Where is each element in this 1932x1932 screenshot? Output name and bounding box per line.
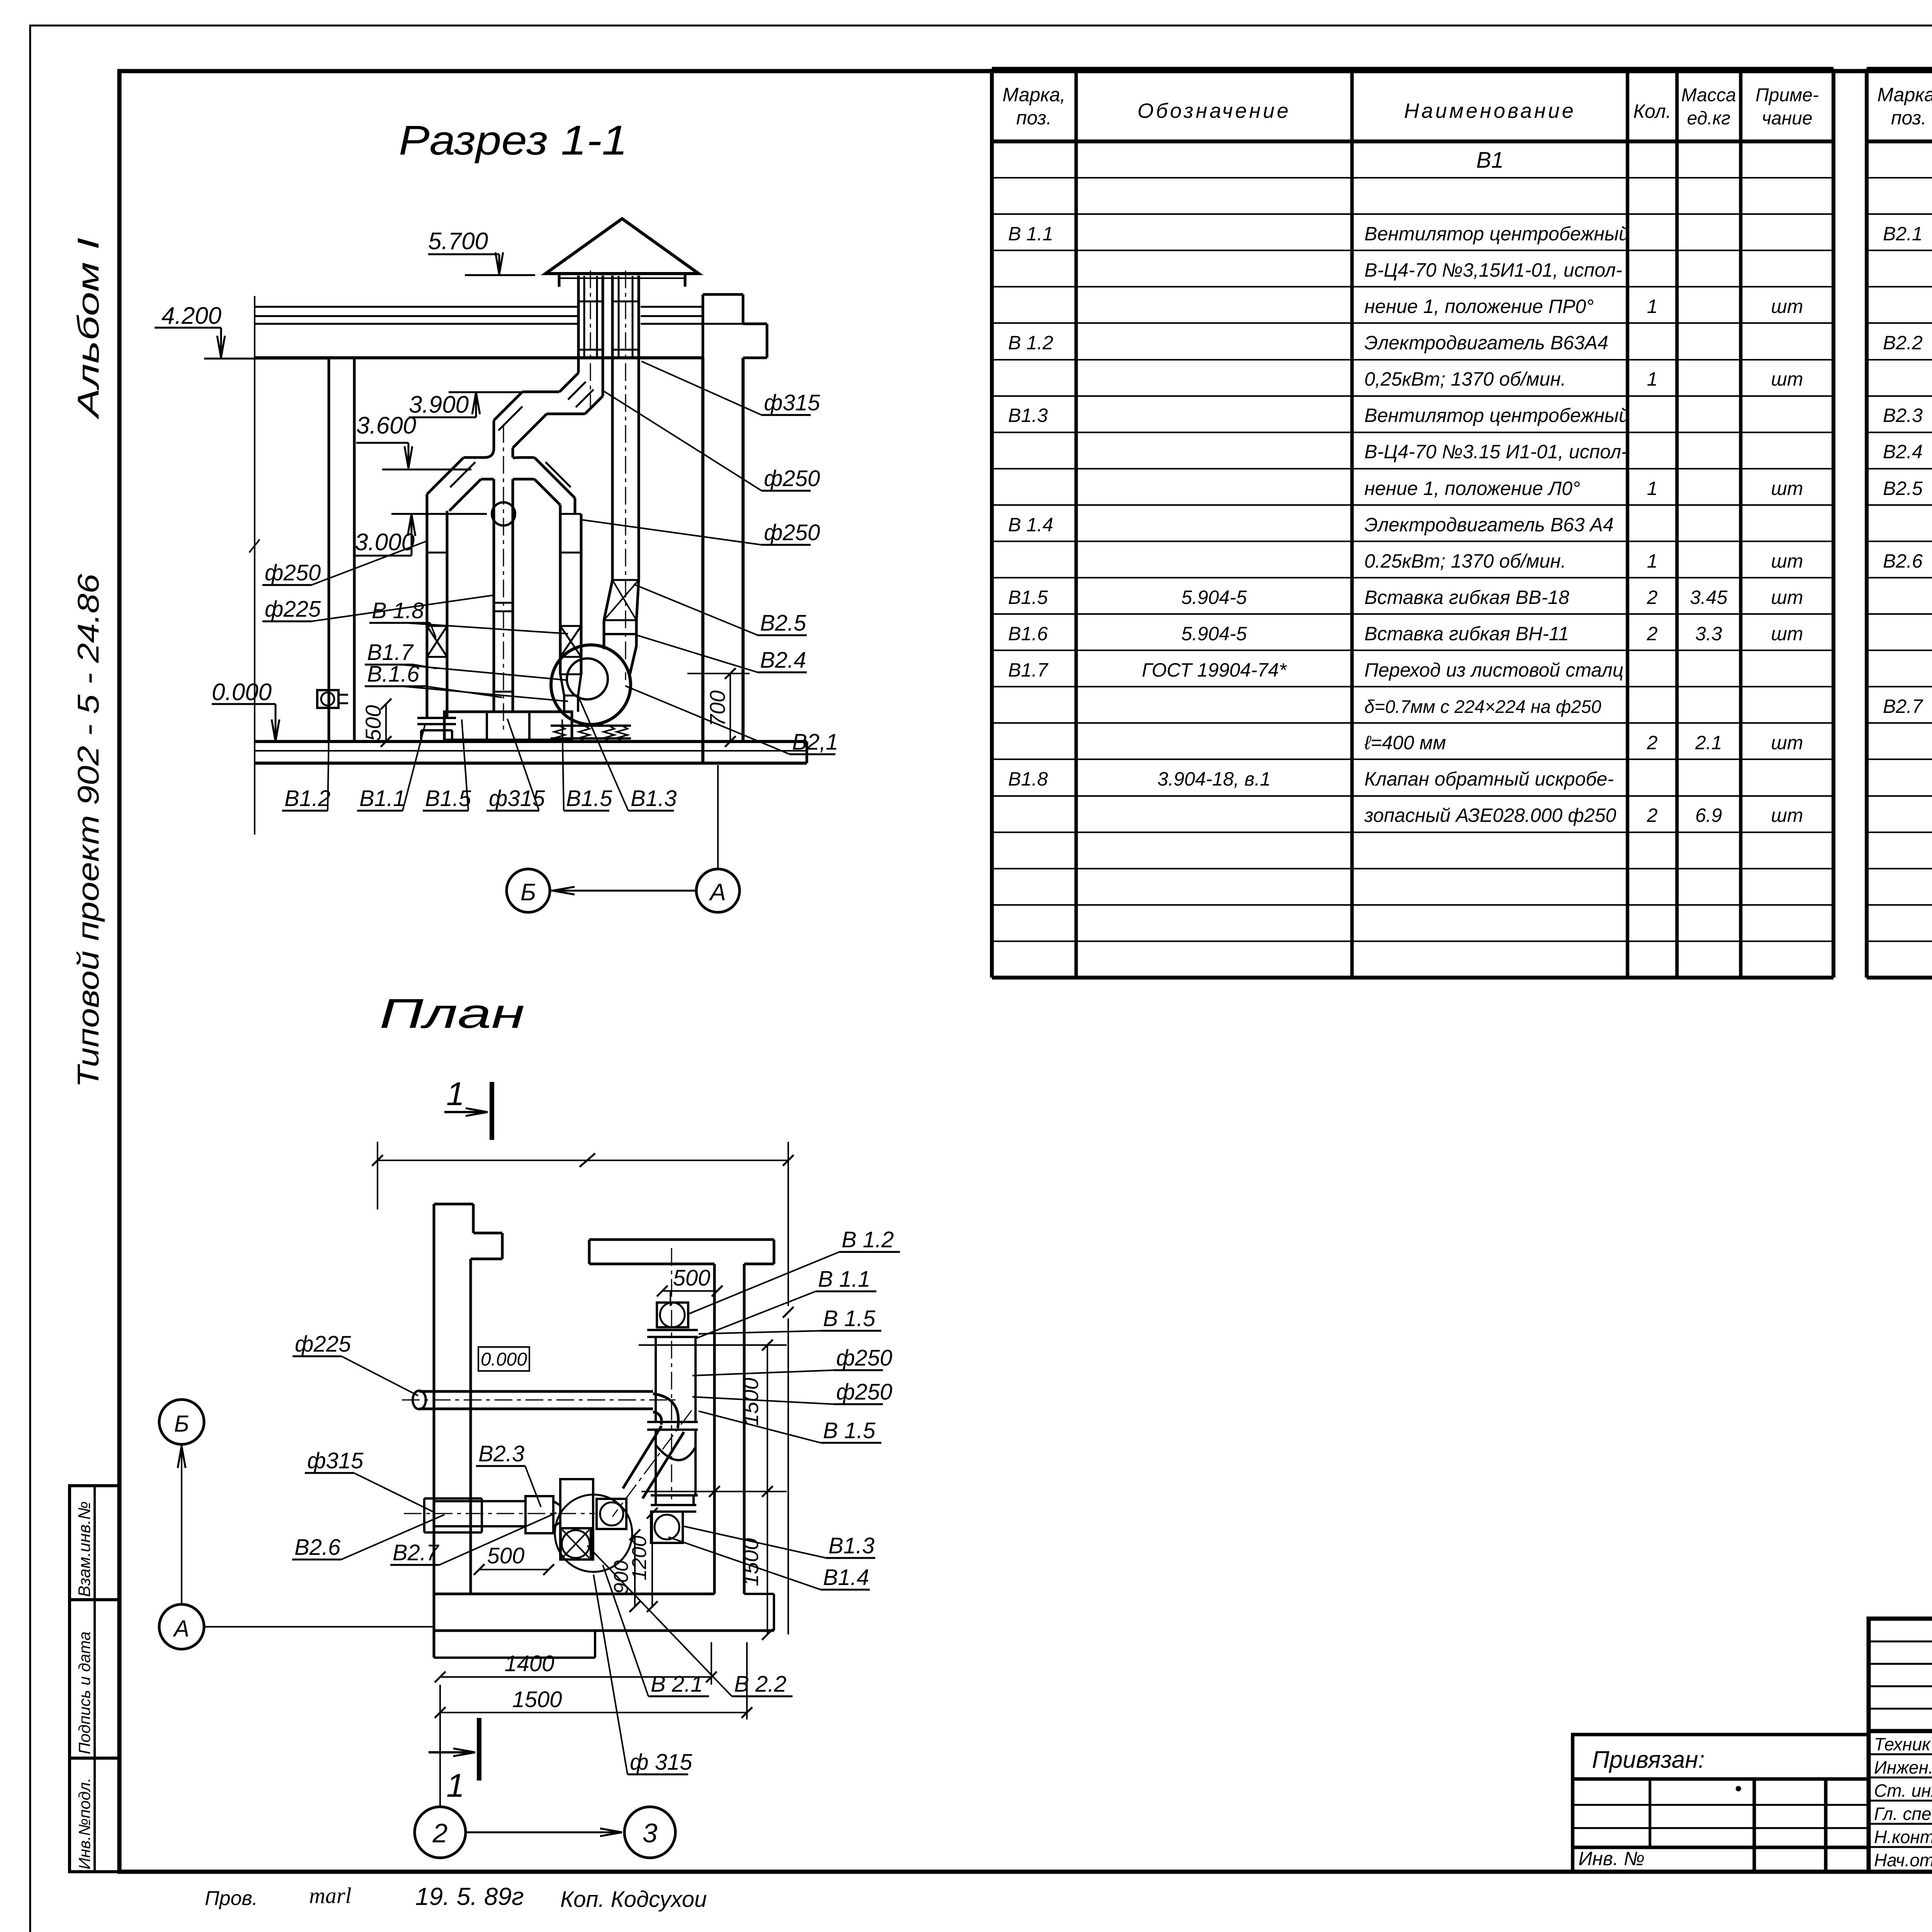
svg-text:Альбом I: Альбом I xyxy=(71,238,105,420)
svg-text:поз.: поз. xyxy=(1016,107,1052,129)
svg-text:0,25кВт; 1370 об/мин.: 0,25кВт; 1370 об/мин. xyxy=(1364,368,1566,390)
svg-text:В1.7: В1.7 xyxy=(1008,659,1049,681)
vertical neck piece xyxy=(493,420,495,448)
svg-text:зопасный АЗЕ028.000 ф250: зопасный АЗЕ028.000 ф250 xyxy=(1364,804,1616,826)
svg-text:5.700: 5.700 xyxy=(428,228,488,255)
svg-text:чание: чание xyxy=(1762,108,1812,129)
svg-text:19. 5. 89г: 19. 5. 89г xyxy=(415,1883,524,1910)
svg-text:В.1.6: В.1.6 xyxy=(367,662,420,687)
svg-text:1500: 1500 xyxy=(512,1687,562,1712)
svg-text:В 1.5: В 1.5 xyxy=(823,1306,876,1331)
svg-text:В1.8: В1.8 xyxy=(1008,768,1048,790)
V1.7 transition right duct xyxy=(560,674,564,696)
svg-text:Н.контр.: Н.контр. xyxy=(1874,1827,1932,1847)
stand under ducts xyxy=(444,712,572,740)
svg-text:1500: 1500 xyxy=(738,1378,763,1426)
svg-text:Б: Б xyxy=(174,1411,189,1437)
plan V2.1 fan outlet box xyxy=(597,1499,626,1529)
roof slab xyxy=(255,306,578,308)
riser centerlines xyxy=(590,270,591,410)
personnel rows xyxy=(1869,1753,1932,1755)
svg-text:5.904-5: 5.904-5 xyxy=(1181,623,1247,645)
svg-text:6.9: 6.9 xyxy=(1695,804,1722,826)
transition V2.5 cone xyxy=(604,580,612,620)
V1 riser duct f250 xyxy=(577,276,580,373)
floor slab xyxy=(255,740,807,743)
svg-text:Взам.инв.№: Взам.инв.№ xyxy=(75,1501,94,1597)
svg-text:В2.2: В2.2 xyxy=(1883,332,1923,354)
svg-text:Инв. №: Инв. № xyxy=(1578,1848,1645,1869)
svg-text:В2.7: В2.7 xyxy=(1883,696,1923,717)
svg-text:В2.6: В2.6 xyxy=(294,1535,341,1560)
svg-text:нение 1, положение ПР0°: нение 1, положение ПР0° xyxy=(1364,296,1594,317)
plan dims 1500 right xyxy=(767,1345,768,1634)
svg-text:В1: В1 xyxy=(1476,148,1504,173)
svg-text:1200: 1200 xyxy=(628,1536,651,1580)
plan section mark top xyxy=(490,1082,494,1140)
svg-text:ГОСТ 19904-74*: ГОСТ 19904-74* xyxy=(1142,659,1287,681)
plan V1 duct run xyxy=(655,1337,657,1422)
sidebar label boxes xyxy=(70,1486,119,1600)
svg-text:ф250: ф250 xyxy=(764,466,820,491)
privyazan block xyxy=(1573,1735,1869,1872)
plan V2.3 flexible insert xyxy=(526,1496,553,1533)
fan outlet to cone xyxy=(603,620,605,649)
plan axis circles 2 and 3 xyxy=(415,1807,466,1858)
elbow down to vertical piece xyxy=(494,392,522,420)
plan diagonal duct xyxy=(643,1432,684,1498)
svg-text:В1.4: В1.4 xyxy=(823,1565,869,1590)
svg-text:В 2.2: В 2.2 xyxy=(734,1672,786,1697)
svg-text:В 1.5: В 1.5 xyxy=(823,1418,876,1443)
svg-text:3: 3 xyxy=(643,1818,658,1848)
plan V2.7 cone xyxy=(553,1501,560,1505)
plan V2.1 fan circle xyxy=(555,1495,632,1572)
right duct of fork xyxy=(574,498,577,514)
upper empty grid rows xyxy=(1869,1641,1932,1643)
fork shoulder xyxy=(464,448,494,457)
svg-text:2: 2 xyxy=(1646,623,1658,645)
plan V1 fan/motor cluster top xyxy=(657,1303,688,1327)
svg-text:4.200: 4.200 xyxy=(162,303,221,329)
specification table B2 grid xyxy=(1865,69,1869,978)
svg-text:В1.5: В1.5 xyxy=(566,786,612,811)
svg-text:Ст. инж.: Ст. инж. xyxy=(1874,1781,1932,1801)
plan V1 elbow piece xyxy=(655,1430,657,1445)
svg-text:В 1.2: В 1.2 xyxy=(842,1227,894,1252)
svg-text:ф250: ф250 xyxy=(836,1345,892,1371)
svg-text:В1.5: В1.5 xyxy=(1008,587,1048,608)
svg-text:1: 1 xyxy=(1647,296,1658,317)
check valve V1.8 left (X) xyxy=(427,626,447,657)
svg-text:ед.кг: ед.кг xyxy=(1687,108,1730,129)
svg-text:Вентилятор центробежный: Вентилятор центробежный xyxy=(1364,223,1629,245)
svg-text:В 2.1: В 2.1 xyxy=(651,1672,703,1697)
plan dims 900 1200 xyxy=(634,1535,636,1607)
svg-text:Электродвигатель В63 А4: Электродвигатель В63 А4 xyxy=(1364,514,1614,536)
svg-text:В1.3: В1.3 xyxy=(1008,405,1048,426)
svg-text:Пров.: Пров. xyxy=(205,1887,258,1910)
svg-text:1400: 1400 xyxy=(504,1651,554,1676)
svg-text:А: А xyxy=(173,1616,189,1641)
svg-text:ф250: ф250 xyxy=(764,520,820,545)
svg-text:В1.3: В1.3 xyxy=(631,786,677,811)
svg-text:поз.: поз. xyxy=(1891,107,1927,129)
dim 500 left xyxy=(385,704,387,742)
svg-text:шт: шт xyxy=(1771,732,1803,753)
svg-text:В 1.1: В 1.1 xyxy=(1008,223,1053,245)
check valve V1.8 right (X) xyxy=(560,626,581,657)
svg-text:В2.7: В2.7 xyxy=(393,1540,440,1565)
svg-text:шт: шт xyxy=(1771,368,1803,390)
svg-text:5.904-5: 5.904-5 xyxy=(1181,587,1247,608)
svg-text:нение 1, положение Л0°: нение 1, положение Л0° xyxy=(1364,478,1580,499)
vibration springs under fan xyxy=(551,724,631,727)
svg-text:0.25кВт; 1370 об/мин.: 0.25кВт; 1370 об/мин. xyxy=(1364,550,1566,572)
dim 700 right xyxy=(730,673,731,742)
duct joint ticks right xyxy=(560,552,581,554)
center duct ticks xyxy=(494,602,513,604)
svg-text:Вентилятор центробежный: Вентилятор центробежный xyxy=(1364,405,1629,426)
svg-text:В 1.8: В 1.8 xyxy=(372,598,424,623)
plan 0.000 box xyxy=(478,1347,529,1371)
svg-text:500: 500 xyxy=(487,1543,525,1568)
svg-text:1: 1 xyxy=(1647,478,1658,499)
svg-text:В2.3: В2.3 xyxy=(1883,405,1923,426)
svg-text:3.900: 3.900 xyxy=(409,391,469,418)
svg-text:1: 1 xyxy=(446,1767,464,1804)
svg-text:0.000: 0.000 xyxy=(481,1349,527,1370)
svg-text:В 1.1: В 1.1 xyxy=(818,1267,870,1292)
plan top-right wall band with stem xyxy=(589,1238,774,1241)
svg-text:В1.5: В1.5 xyxy=(425,786,471,811)
svg-text:В-Ц4-70 №3,15И1-01, испол-: В-Ц4-70 №3,15И1-01, испол- xyxy=(1364,259,1622,281)
svg-text:Инв.№подл.: Инв.№подл. xyxy=(75,1778,94,1869)
svg-text:В 1.2: В 1.2 xyxy=(1008,332,1053,354)
svg-text:3.000: 3.000 xyxy=(355,529,415,556)
svg-text:ℓ=400 мм: ℓ=400 мм xyxy=(1364,732,1446,753)
svg-text:0.000: 0.000 xyxy=(212,679,272,706)
axis circles section: B and A xyxy=(507,869,550,912)
svg-text:Разрез 1-1: Разрез 1-1 xyxy=(399,117,628,163)
svg-text:Коп. Кодсухои: Коп. Кодсухои xyxy=(560,1887,707,1912)
svg-text:500: 500 xyxy=(673,1265,711,1291)
right parapet xyxy=(703,293,743,296)
svg-text:ф315: ф315 xyxy=(307,1448,364,1473)
motor V1.2 bracket on wall xyxy=(317,690,338,708)
svg-text:Масса: Масса xyxy=(1681,85,1736,105)
svg-text:3.3: 3.3 xyxy=(1695,623,1722,645)
svg-text:Вставка гибкая ВН-11: Вставка гибкая ВН-11 xyxy=(1364,623,1569,645)
riser joint ticks xyxy=(578,301,603,303)
plan section mark bottom xyxy=(477,1718,481,1781)
svg-text:В1.2: В1.2 xyxy=(284,786,330,811)
plan left wall xyxy=(433,1204,435,1658)
svg-text:3.45: 3.45 xyxy=(1690,587,1728,608)
svg-text:В 1.4: В 1.4 xyxy=(1008,514,1053,536)
svg-text:ф225: ф225 xyxy=(295,1332,351,1357)
svg-text:Нач.отд.: Нач.отд. xyxy=(1874,1850,1932,1870)
plan axis circles B and A left xyxy=(159,1400,204,1444)
svg-text:ф250: ф250 xyxy=(836,1379,892,1405)
svg-text:В2.5: В2.5 xyxy=(1883,478,1923,499)
left wall column xyxy=(328,358,330,742)
svg-text:В2,1: В2,1 xyxy=(792,730,838,755)
svg-text:В1.6: В1.6 xyxy=(1008,623,1048,645)
left duct foot plates xyxy=(417,717,456,719)
svg-text:ф 315: ф 315 xyxy=(630,1750,692,1775)
svg-text:шт: шт xyxy=(1771,804,1803,826)
svg-text:План: План xyxy=(379,990,525,1037)
svg-text:ф315: ф315 xyxy=(489,786,545,811)
svg-text:ф250: ф250 xyxy=(265,560,321,585)
svg-text:Приме-: Приме- xyxy=(1755,85,1819,105)
svg-text:Гл. спец.: Гл. спец. xyxy=(1874,1804,1932,1824)
svg-text:Вставка гибкая ВВ-18: Вставка гибкая ВВ-18 xyxy=(1364,587,1569,608)
svg-text:А: А xyxy=(708,879,726,906)
svg-text:Марка,: Марка, xyxy=(1877,84,1932,105)
plan top dimension line xyxy=(378,1160,788,1161)
left extension line xyxy=(254,296,255,835)
svg-text:1: 1 xyxy=(1647,550,1658,572)
plan bottom wall xyxy=(434,1593,714,1595)
center duct f225 xyxy=(493,479,495,712)
svg-text:В-Ц4-70 №3.15 И1-01, испол-: В-Ц4-70 №3.15 И1-01, испол- xyxy=(1364,441,1628,463)
duct joint ticks left xyxy=(427,552,447,554)
plan V2 duct from wall xyxy=(434,1500,526,1502)
title block frame xyxy=(1869,1619,1932,1872)
svg-text:шт: шт xyxy=(1771,478,1803,499)
svg-text:2: 2 xyxy=(1646,587,1658,608)
plan top-left pillar xyxy=(434,1203,473,1206)
svg-text:В1.1: В1.1 xyxy=(359,786,405,811)
svg-text:2: 2 xyxy=(1646,732,1658,753)
svg-text:3.904-18, в.1: 3.904-18, в.1 xyxy=(1158,768,1271,790)
umbrella cap xyxy=(546,219,699,274)
svg-text:Электродвигатель В63А4: Электродвигатель В63А4 xyxy=(1364,332,1608,354)
svg-text:Кол.: Кол. xyxy=(1633,100,1671,122)
svg-text:1: 1 xyxy=(1647,368,1658,390)
V1 horizontal duct at 3.900 with elbows xyxy=(522,391,560,393)
svg-text:шт: шт xyxy=(1771,623,1803,645)
svg-text:Марка,: Марка, xyxy=(1002,84,1065,105)
svg-text:2: 2 xyxy=(1646,804,1658,826)
left duct of fork xyxy=(426,494,429,718)
svg-text:В2.6: В2.6 xyxy=(1883,550,1923,572)
fan V2.1 scroll xyxy=(551,645,631,724)
svg-text:δ=0.7мм с 224×224 на ф250: δ=0.7мм с 224×224 на ф250 xyxy=(1364,696,1601,717)
svg-text:Подпись и дата: Подпись и дата xyxy=(75,1631,94,1754)
svg-text:шт: шт xyxy=(1771,550,1803,572)
V2 riser duct f315 xyxy=(611,276,614,580)
svg-text:Типовой проект 902 - 5 - 24.: Типовой проект 902 - 5 - 24.86 xyxy=(71,573,105,1088)
svg-text:Клапан обратный искробе-: Клапан обратный искробе- xyxy=(1364,768,1614,790)
plan elbow at pipe end xyxy=(653,1394,679,1428)
svg-text:Обозначение: Обозначение xyxy=(1138,99,1291,122)
plan V1.3 unit bottom xyxy=(655,1495,657,1505)
svg-text:2: 2 xyxy=(432,1818,448,1848)
svg-text:3.600: 3.600 xyxy=(356,412,416,439)
plan V2.1 fan scroll housing xyxy=(560,1479,593,1560)
svg-text:Инжен.: Инжен. xyxy=(1874,1757,1932,1777)
plan pipe f225 xyxy=(413,1391,426,1409)
svg-text:Привязан:: Привязан: xyxy=(1592,1747,1705,1773)
svg-text:В2.4: В2.4 xyxy=(1883,441,1923,463)
specification table B1 grid xyxy=(990,69,994,978)
plan V2.6 guard at wall xyxy=(424,1497,482,1500)
svg-text:В2.5: В2.5 xyxy=(760,611,806,636)
svg-text:Переход из листовой сталц: Переход из листовой сталц xyxy=(1364,659,1624,681)
svg-text:Б: Б xyxy=(520,879,536,906)
svg-text:В1.3: В1.3 xyxy=(828,1533,874,1558)
svg-text:Наименование: Наименование xyxy=(1404,99,1576,122)
svg-text:1: 1 xyxy=(446,1076,464,1112)
svg-text:шт: шт xyxy=(1771,587,1803,608)
svg-text:Техник: Техник xyxy=(1874,1734,1931,1754)
svg-text:500: 500 xyxy=(361,705,385,741)
svg-text:ф315: ф315 xyxy=(764,390,820,415)
svg-text:шт: шт xyxy=(1771,296,1803,317)
svg-text:В2.4: В2.4 xyxy=(760,648,806,673)
svg-text:ф225: ф225 xyxy=(265,597,321,622)
plan V2.2 motor box xyxy=(561,1528,591,1560)
svg-text:В2.1: В2.1 xyxy=(1883,223,1923,245)
svg-text:тarl: тarl xyxy=(309,1883,352,1908)
right wall xyxy=(701,358,704,763)
svg-text:2.1: 2.1 xyxy=(1695,732,1722,753)
svg-text:В2.3: В2.3 xyxy=(478,1441,524,1466)
